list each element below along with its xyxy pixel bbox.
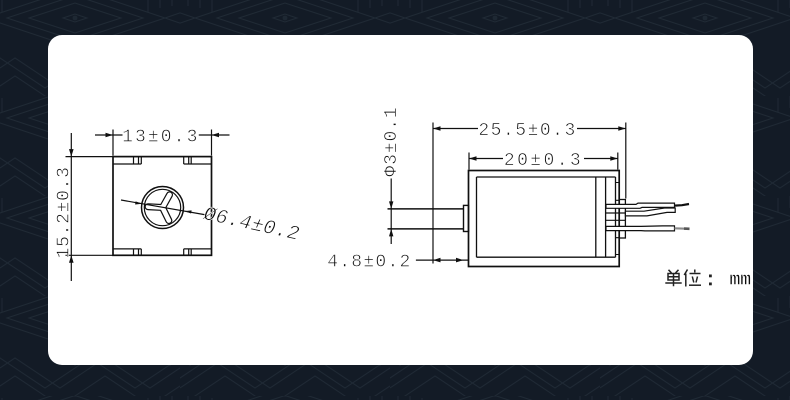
front view: trimmer body outline (113, 157, 212, 256)
dim 13 line (95, 134, 230, 136)
lead bottom tail (675, 227, 690, 230)
front view: top seam ticks (134, 157, 192, 164)
white drawing card (48, 35, 753, 365)
leader arrow left (135, 201, 142, 204)
side view: body outer rect (469, 171, 620, 267)
lead middle (625, 208, 675, 216)
side view: right terminal tab (619, 200, 625, 239)
side view: inner walls (477, 177, 616, 257)
dim 4.8 line (416, 259, 469, 261)
side view: shaft (388, 209, 464, 229)
dim 15.2 line (70, 133, 72, 281)
unit note: colon (709, 275, 712, 286)
rotor Y-slot (145, 192, 172, 224)
svg-text:mm: mm (729, 270, 751, 290)
dim 13 extension lines (113, 130, 212, 156)
lead bottom (606, 226, 675, 231)
svg-text:Ø6.4±0.2: Ø6.4±0.2 (199, 204, 303, 247)
dim 4.8 arrows (433, 258, 464, 263)
dim 15.2 extension lines (66, 157, 114, 256)
dim 20 line (469, 158, 618, 160)
svg-text:13±0.3: 13±0.3 (122, 127, 199, 147)
svg-text:25.5±0.3: 25.5±0.3 (478, 121, 576, 141)
lead top (606, 203, 675, 208)
dim 20 arrows (469, 156, 618, 161)
svg-text:4.8±0.2: 4.8±0.2 (327, 252, 411, 272)
front view: bottom seam line (113, 248, 212, 250)
rotor inner circle (144, 189, 180, 225)
front view: top seam line (113, 163, 212, 165)
dim 20 extension lines (469, 153, 618, 170)
lead top tail (675, 204, 690, 206)
unit note: hanzi dan (665, 270, 681, 287)
dim 25.5 extension lines (433, 123, 626, 264)
leader line for diameter 6.4 (121, 200, 205, 215)
dim phi3 line (390, 179, 392, 245)
dim 25.5 arrows (433, 126, 626, 131)
svg-text:20±0.3: 20±0.3 (504, 151, 583, 171)
dim phi3 arrows (389, 201, 393, 236)
side view: shaft flange (464, 205, 469, 231)
front view: bottom seam ticks (134, 249, 192, 255)
svg-text:Φ3±0.1: Φ3±0.1 (382, 106, 402, 176)
dim 15.2 arrows (69, 149, 74, 263)
side view: terminal cell lines (606, 213, 626, 220)
svg-text:15.2±0.3: 15.2±0.3 (55, 166, 75, 258)
leader arrow right (184, 210, 191, 213)
rotor outer circle (142, 187, 184, 229)
dim 25.5 line (433, 128, 626, 130)
side view: wall notches (616, 183, 620, 255)
dim 13 arrows (106, 133, 220, 138)
unit note: hanzi wei (684, 270, 701, 287)
